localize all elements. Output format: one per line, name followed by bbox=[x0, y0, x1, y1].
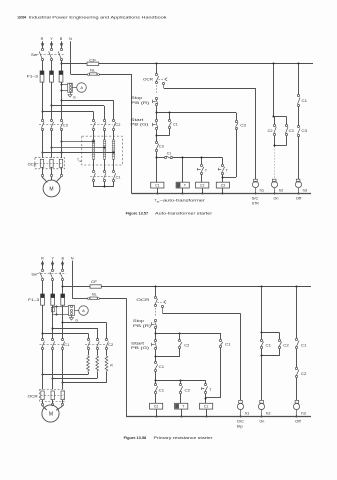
fig2 start pushbutton label bbox=[131, 341, 149, 350]
fig1 wire to coil C1 bbox=[156, 151, 158, 182]
svg-text:C1: C1 bbox=[159, 389, 165, 393]
fig1 transformer tap line B-winding1 bbox=[61, 141, 95, 143]
svg-text:C3: C3 bbox=[221, 184, 225, 188]
fig2 resistor return line 1 bbox=[42, 372, 89, 376]
fig2 start rejoin wire bbox=[155, 350, 180, 362]
fig1 transformer winding 1 bbox=[92, 140, 95, 159]
svg-text:T: T bbox=[182, 405, 184, 409]
fig2 phase Y label+arrow bbox=[51, 257, 55, 270]
fig1 auto-transformer Tau label bbox=[77, 158, 82, 163]
fig1 aux C1 contact bbox=[297, 94, 300, 106]
fig2 tap B to C2 column bbox=[62, 322, 107, 340]
svg-text:C2: C2 bbox=[115, 123, 120, 127]
svg-text:N: N bbox=[69, 37, 72, 41]
fig1 CT taps on B bbox=[61, 84, 68, 92]
fig1 aux contact C1 horizontal bbox=[157, 156, 173, 159]
svg-text:A: A bbox=[82, 308, 85, 313]
fig1 aux C3 contact label bbox=[302, 129, 308, 133]
svg-text:A: A bbox=[80, 85, 83, 90]
fig1 auto-transformer Tau dashed box bbox=[82, 136, 123, 165]
fig1 tap B to C2 column bbox=[61, 100, 114, 120]
fig2 contact C2b bbox=[179, 380, 182, 393]
fig1 switch pole B bbox=[58, 48, 62, 60]
fig1 contactor C2 label bbox=[115, 123, 120, 127]
fig1 contactor C3 pole B bbox=[60, 119, 63, 130]
svg-text:h2: h2 bbox=[279, 189, 284, 193]
fig1 fuse F3 bbox=[59, 71, 63, 82]
fig2 branch line to T/C2 coils bbox=[156, 380, 206, 382]
fig1 wire junction to C3 aux bbox=[157, 112, 236, 114]
fig2 contact C1b bbox=[154, 383, 157, 393]
fig1 current transformer CT bbox=[68, 83, 73, 92]
fig1 pair branch top bbox=[274, 116, 287, 124]
svg-text:C1: C1 bbox=[173, 122, 178, 126]
fig2 switch pole 1 bbox=[40, 269, 44, 280]
fig1 wire contactor-OCR Y bbox=[51, 130, 53, 158]
fig1 timer contact T2 label bbox=[226, 168, 229, 172]
fig1 fuse F1-3 label bbox=[27, 74, 38, 78]
svg-text:T: T bbox=[184, 184, 186, 188]
fig2 wire fuse-contactor 2 bbox=[52, 305, 54, 339]
fig2 OCR heater 1 bbox=[41, 391, 44, 400]
fig1 lamp h2 label bbox=[279, 189, 284, 193]
fig1 motor terminal 3 bbox=[60, 167, 62, 176]
fig2 OCR trip contact label bbox=[136, 298, 150, 302]
fig1 wire NL to neutral bus bbox=[99, 74, 132, 194]
fig1 transformer winding 3 bbox=[112, 140, 115, 159]
fig2 aux C1 branch label bbox=[225, 343, 231, 347]
fig1 dotted wire to lamp h2 bbox=[274, 147, 276, 178]
svg-text:Figure 13.58: Figure 13.58 bbox=[124, 436, 147, 440]
svg-text:Industrial Power Engineering a: Industrial Power Engineering and Applica… bbox=[29, 16, 167, 20]
fig2 wire C2-resistor 2 bbox=[97, 349, 99, 355]
fig2 phase B label+arrow bbox=[61, 257, 65, 270]
fig1 lamp h3 label bbox=[303, 189, 308, 193]
svg-text:Start: Start bbox=[131, 341, 144, 345]
svg-text:C1: C1 bbox=[266, 343, 272, 347]
fig1 holding contact C1 bbox=[168, 113, 171, 136]
fig1 motor terminal 2 bbox=[50, 167, 52, 176]
fig2 contactor C2 label bbox=[108, 343, 113, 347]
fig1 OCR trip contact bbox=[155, 73, 167, 84]
fig2 fuse F1 bbox=[41, 294, 45, 305]
svg-text:STR: STR bbox=[252, 201, 259, 205]
fig2 resistor R2 bbox=[96, 355, 99, 372]
fig1 neutral link NL bbox=[71, 73, 100, 76]
svg-text:Off: Off bbox=[295, 420, 301, 424]
fig2 control fuse CF bbox=[63, 285, 102, 288]
fig1 timer coil T bbox=[176, 182, 189, 194]
fig2 stop pushbutton label bbox=[133, 319, 151, 328]
fig2 wire to lamp h3 bbox=[296, 378, 298, 401]
fig1 lamp h2 bbox=[271, 179, 277, 194]
fig1 stop pushbutton bbox=[153, 97, 158, 105]
fig1 wire C2-transformer 3 bbox=[113, 130, 115, 140]
svg-text:R: R bbox=[41, 37, 44, 41]
fig1 phase Y label+arrow bbox=[50, 37, 53, 48]
fig1 contactor C1 pole 1 bbox=[92, 170, 95, 181]
fig1 interlock C3 aux label bbox=[240, 123, 246, 127]
svg-text:C2: C2 bbox=[283, 343, 289, 347]
fig1 switch pole Y bbox=[49, 48, 53, 60]
svg-text:13/394: 13/394 bbox=[17, 16, 27, 20]
fig1 neutral link NL label bbox=[90, 68, 95, 72]
fig1 coil C3 bbox=[216, 182, 229, 194]
fig2 current transformer CT bbox=[68, 305, 74, 315]
svg-text:F1–3: F1–3 bbox=[27, 74, 38, 78]
fig1 wire C1-C3 bbox=[298, 106, 300, 126]
fig2 lamp h1 label bbox=[245, 411, 250, 415]
fig2 fuse F1-3 label bbox=[28, 298, 39, 302]
svg-text:C3: C3 bbox=[159, 144, 164, 148]
fig2 OCR dashed stem bbox=[155, 308, 157, 317]
fig1 contactor C3 dashed linkage bbox=[39, 124, 62, 126]
fig1 ammeter A bbox=[72, 83, 86, 93]
svg-text:NL: NL bbox=[92, 293, 97, 297]
fig2 h3 contact C1 label bbox=[301, 343, 307, 347]
fig1 overload relay OCR box bbox=[35, 158, 65, 169]
fig1 contactor C2 pole 1 bbox=[92, 119, 95, 130]
fig2 wire fuse-contactor 1 bbox=[42, 305, 44, 339]
fig1 interlock C3 label bbox=[159, 144, 164, 148]
fig2 h3 contact C2 bbox=[295, 367, 299, 377]
fig2 lamp h3 bbox=[293, 400, 299, 417]
svg-text:h3: h3 bbox=[303, 189, 308, 193]
svg-text:PB (G): PB (G) bbox=[130, 123, 148, 127]
fig2 OCR heater 3 bbox=[61, 391, 64, 400]
fig1 OCR heater 3 bbox=[59, 159, 62, 167]
fig1 pair contact C3 bbox=[285, 124, 288, 135]
fig1 wire switch-fuse R bbox=[42, 60, 44, 71]
fig2 neutral link NL label bbox=[92, 293, 97, 297]
fig1 wire CF to control bus bbox=[99, 63, 313, 65]
fig2 pair contact C2 bbox=[278, 339, 281, 348]
svg-text:On: On bbox=[274, 197, 279, 201]
fig2 OCR heater 2 bbox=[51, 391, 54, 400]
svg-text:C1: C1 bbox=[225, 343, 231, 347]
fig1 contactor C1 pole 2 bbox=[103, 170, 106, 181]
fig1 fuse F2 bbox=[50, 71, 54, 82]
fig2 holding contact C2 bbox=[178, 333, 182, 356]
svg-text:h1: h1 bbox=[260, 189, 265, 193]
fig1 star point bar bbox=[93, 181, 113, 187]
fig2 timer coil T bbox=[175, 394, 188, 418]
fig2 ammeter A bbox=[74, 306, 88, 316]
fig2 lamp h3 label bbox=[301, 411, 306, 415]
fig2 wire C2-resistor 3 bbox=[106, 349, 108, 355]
fig2 contactor C1 pole 1 bbox=[41, 338, 44, 349]
fig2 switch Sw dashed linkage bbox=[37, 273, 66, 275]
fig1 switch Sw dashed linkage bbox=[37, 54, 65, 56]
svg-text:C2: C2 bbox=[268, 129, 273, 133]
fig2 contactor C2 pole 2 bbox=[96, 338, 99, 349]
svg-text:PB (R): PB (R) bbox=[133, 324, 151, 328]
fig2 OCR signal branch wire bbox=[163, 307, 241, 401]
fig1 contactor C2 pole 2 bbox=[103, 119, 106, 130]
fig1 contactor C2 dashed linkage bbox=[90, 124, 112, 126]
fig2 lamp h1 bbox=[237, 400, 243, 417]
fig2 contactor C1 dashed linkage bbox=[40, 344, 64, 346]
fig2 wire C1a-junction bbox=[155, 371, 157, 383]
fig1 wire C2-transformer 2 bbox=[104, 130, 106, 140]
fig2 switch pole 2 bbox=[50, 269, 54, 280]
fig2 contactor C1 pole 2 bbox=[51, 338, 54, 349]
svg-text:C1: C1 bbox=[159, 365, 165, 369]
svg-text:h3: h3 bbox=[301, 411, 306, 415]
svg-text:OCR: OCR bbox=[28, 395, 39, 399]
fig1 phase B label+arrow bbox=[60, 37, 63, 48]
fig2 contact C1a label bbox=[159, 365, 165, 369]
fig1 C2-C3 pair feed wire bbox=[273, 63, 275, 118]
svg-text:Stop: Stop bbox=[133, 319, 144, 323]
fig2 neutral N label+line bbox=[71, 257, 74, 299]
svg-text:M: M bbox=[49, 412, 53, 418]
svg-text:Primary resistance starter: Primary resistance starter bbox=[154, 436, 214, 440]
fig2 motor leads bbox=[43, 405, 63, 410]
fig1 lamp h3 caption Off bbox=[296, 197, 302, 201]
fig1 tap Y to C2 column bbox=[51, 105, 105, 120]
svg-text:PB (G): PB (G) bbox=[131, 346, 149, 350]
fig1 interlock C3 contact bbox=[155, 141, 158, 151]
fig2 pair branch top bbox=[262, 333, 280, 340]
svg-text:C1: C1 bbox=[204, 405, 208, 409]
fig2 wire switch-fuse 3 bbox=[62, 280, 64, 294]
svg-text:OCR: OCR bbox=[136, 298, 150, 302]
svg-text:N: N bbox=[71, 257, 74, 261]
fig1 OCR dashed stem bbox=[156, 85, 158, 94]
fig2 wire switch-fuse 1 bbox=[42, 280, 44, 294]
fig1 ground G bbox=[68, 92, 76, 99]
fig1 wire stop-junction bbox=[156, 105, 158, 119]
fig2 neutral bus bbox=[126, 416, 311, 418]
svg-text:C2: C2 bbox=[301, 372, 307, 376]
svg-text:C3: C3 bbox=[63, 124, 68, 128]
svg-text:C1: C1 bbox=[302, 99, 308, 103]
fig1 aux C3 contact bbox=[297, 125, 300, 136]
svg-text:C2: C2 bbox=[154, 405, 158, 409]
fig2 pair contact C2 label bbox=[283, 343, 289, 347]
fig1 switch Sw label bbox=[31, 53, 38, 57]
fig2 ground G bbox=[69, 315, 78, 322]
fig2 lamp h2 caption On bbox=[259, 420, 264, 424]
svg-text:Auto-transformer starter: Auto-transformer starter bbox=[155, 211, 213, 215]
fig1 OCR trip contact label bbox=[143, 78, 154, 82]
fig1 Tau-auto-transformer note bbox=[155, 198, 207, 203]
fig1 wire to coil T bbox=[182, 158, 184, 182]
fig1 overload relay OCR label bbox=[28, 163, 38, 167]
fig1 start rejoin wire bbox=[156, 130, 170, 141]
fig2 h3 column feed bbox=[296, 286, 298, 339]
fig1 wire aux-C1 to branches bbox=[173, 157, 223, 159]
fig2 wire C1-C2 h3 bbox=[296, 349, 298, 367]
fig1 phase R label+arrow bbox=[41, 37, 45, 48]
svg-text:CF: CF bbox=[89, 58, 96, 62]
fig2 wire C2-resistor 1 bbox=[88, 349, 90, 355]
fig1 contactor C1 dashed linkage bbox=[90, 176, 112, 178]
fig2 contactor C1 main label bbox=[64, 343, 69, 347]
fig2 contactor C1 pole 3 bbox=[61, 338, 64, 349]
fig2 resistor return line 2 bbox=[52, 372, 98, 380]
fig1 transformer tap line R-winding3 bbox=[42, 152, 115, 154]
svg-text:C3: C3 bbox=[240, 123, 246, 127]
fig1 wire winding-C1 1 bbox=[93, 159, 95, 170]
fig2 resistor return line 3 bbox=[62, 372, 107, 384]
fig1 node control feed bbox=[156, 63, 158, 74]
fig1 coil C1 bbox=[151, 182, 164, 194]
fig2 coil C2 bbox=[150, 394, 163, 418]
fig2 timer contact T bbox=[202, 380, 208, 403]
fig1 wire switch-fuse Y bbox=[51, 60, 53, 71]
fig2 aux C1 branch bbox=[206, 333, 223, 398]
svg-text:PB (R): PB (R) bbox=[131, 101, 149, 105]
svg-text:OCR: OCR bbox=[28, 163, 38, 167]
fig1 aux C1 contact label bbox=[302, 99, 308, 103]
fig2 coil C1 bbox=[200, 403, 213, 417]
fig2 wire to lamp h2 bbox=[261, 356, 263, 401]
fig2 OCR trip contact bbox=[154, 296, 166, 307]
fig1 transformer winding 2 bbox=[103, 140, 106, 159]
fig1 pair contact C2 label bbox=[268, 129, 273, 133]
svg-text:G: G bbox=[73, 95, 76, 99]
svg-text:On: On bbox=[259, 420, 264, 424]
fig1 wire fuse-contactor B bbox=[61, 82, 63, 119]
fig1 wire contactor-OCR B bbox=[61, 130, 63, 158]
fig2 holding contact C2 label bbox=[184, 344, 189, 348]
fig1 contactor C3 pole R bbox=[41, 119, 44, 130]
fig1 wire C2-transformer 1 bbox=[93, 130, 95, 140]
fig1 transformer tap line Y-winding2 bbox=[51, 147, 106, 149]
fig1 lamp h1 bbox=[252, 179, 258, 194]
fig2 switch Sw label bbox=[31, 272, 37, 276]
svg-text:C1: C1 bbox=[155, 184, 159, 188]
fig1 pair contact C2 bbox=[273, 124, 276, 135]
fig2 motor terminal 2 bbox=[51, 400, 53, 406]
fig2 pair branch bottom bbox=[261, 348, 280, 356]
svg-text:Figure 13.57: Figure 13.57 bbox=[126, 211, 148, 215]
fig2 h3 contact C2 label bbox=[301, 372, 307, 376]
fig2 h2 column feed bbox=[261, 286, 263, 334]
fig2 contact C2b label bbox=[185, 389, 191, 393]
fig1 OCR signal branch wire bbox=[164, 84, 256, 179]
fig2 wire junction to C1 aux branch bbox=[156, 333, 221, 335]
fig1 pair contact C3 label bbox=[289, 129, 294, 133]
fig1 contactor C1 star label bbox=[116, 175, 121, 179]
fig2 wire stop-junction bbox=[155, 328, 157, 340]
fig1 start pushbutton label bbox=[130, 118, 148, 127]
fig2 phase R label+arrow bbox=[41, 257, 44, 270]
fig1 start pushbutton bbox=[153, 119, 158, 129]
fig1 wire winding-C1 3 bbox=[113, 159, 115, 170]
fig2 control fuse CF label bbox=[91, 280, 97, 284]
fig2 node B-CF junction bbox=[62, 286, 64, 288]
svg-text:F1–3: F1–3 bbox=[28, 298, 39, 302]
fig1 contactor C3 main label bbox=[63, 124, 68, 128]
fig1 aux contact C1 label bbox=[167, 151, 172, 155]
fig1 wire fuse-contactor R bbox=[42, 82, 44, 119]
svg-text:C2: C2 bbox=[200, 184, 204, 188]
svg-text:C1: C1 bbox=[116, 175, 121, 179]
fig2 neutral link NL bbox=[72, 297, 99, 300]
fig2 switch pole 3 bbox=[60, 269, 64, 280]
svg-text:M: M bbox=[49, 187, 53, 193]
fig2 resistor R1 bbox=[87, 355, 90, 372]
fig2 stop pushbutton bbox=[152, 319, 157, 328]
fig2 contact C1b label bbox=[159, 389, 165, 393]
fig1 wire contactor-OCR R bbox=[42, 130, 44, 158]
fig2 node control feed bbox=[155, 286, 157, 297]
fig2 motor M bbox=[42, 405, 59, 422]
fig1 lamp h1 label bbox=[260, 189, 265, 193]
fig2 wire contactor-OCR 2 bbox=[52, 349, 54, 389]
fig1 contactor C2 pole 3 bbox=[112, 119, 115, 130]
svg-text:CF: CF bbox=[91, 280, 97, 284]
fig2 pair contact C1 bbox=[260, 339, 263, 348]
fig1 lamp h2 caption On bbox=[274, 197, 279, 201]
fig2 contactor C2 dashed linkage bbox=[85, 344, 105, 346]
svg-text:h1: h1 bbox=[245, 411, 250, 415]
svg-text:O/C: O/C bbox=[237, 420, 245, 424]
fig1 lamp h1 caption S/C STR bbox=[252, 197, 259, 206]
svg-text:C2: C2 bbox=[185, 389, 191, 393]
fig2 lamp h3 caption Off bbox=[295, 420, 301, 424]
fig2 motor terminal 1 bbox=[41, 400, 43, 406]
fig2 resistor R3 bbox=[105, 355, 108, 372]
fig1 timer contact T1 bbox=[198, 158, 204, 182]
svg-text:C2: C2 bbox=[108, 343, 113, 347]
svg-text:Sw: Sw bbox=[31, 272, 37, 276]
page header bbox=[17, 16, 166, 20]
fig2 start pushbutton bbox=[152, 339, 157, 349]
fig2 overload relay OCR box bbox=[40, 389, 65, 401]
fig2 h3 contact C1 bbox=[295, 338, 299, 348]
fig2 contactor C2 pole 3 bbox=[105, 338, 108, 349]
svg-text:Sw: Sw bbox=[31, 53, 38, 57]
svg-text:C2: C2 bbox=[184, 344, 189, 348]
svg-text:h2: h2 bbox=[266, 411, 271, 415]
svg-text:OCR: OCR bbox=[143, 78, 154, 82]
fig1 timer contact T1 label bbox=[205, 168, 208, 172]
fig1 pair branch bottom bbox=[274, 136, 287, 147]
fig1 fuse F1 bbox=[40, 71, 44, 82]
svg-text:C3: C3 bbox=[302, 129, 308, 133]
svg-text:Stop: Stop bbox=[131, 96, 142, 100]
fig1 node B-CF junction bbox=[61, 63, 63, 65]
fig1 control fuse CF bbox=[61, 62, 99, 65]
fig1 contactor C1 pole 3 bbox=[112, 170, 115, 181]
svg-text:C1: C1 bbox=[64, 343, 69, 347]
fig2 pair contact C1 label bbox=[266, 343, 272, 347]
fig2 contactor C2 pole 1 bbox=[87, 338, 90, 349]
fig1 tap R to C2 column bbox=[42, 111, 94, 120]
fig2 fuse F3 bbox=[61, 294, 65, 305]
fig1 motor leads bbox=[42, 177, 61, 182]
fig2 lamp h1 caption O/C trip bbox=[237, 420, 245, 429]
fig2 contact C1a bbox=[154, 361, 157, 371]
figure 13.58 caption bbox=[124, 436, 214, 440]
svg-text:C1: C1 bbox=[167, 151, 172, 155]
svg-text:NL: NL bbox=[90, 68, 95, 72]
fig1 OCR heater 1 bbox=[40, 159, 43, 167]
fig1 OCR heater 2 bbox=[50, 159, 53, 167]
fig1 holding contact C1 label bbox=[173, 122, 178, 126]
fig2 tap Y to C2 column bbox=[52, 328, 98, 340]
fig2 tap R to C2 column bbox=[42, 333, 89, 340]
fig1 running column feed bbox=[298, 63, 300, 95]
fig1 lamp h3 bbox=[295, 179, 301, 194]
fig2 motor terminal 3 bbox=[61, 400, 63, 406]
svg-text:R: R bbox=[41, 257, 44, 261]
fig1 stop pushbutton label bbox=[131, 96, 149, 105]
